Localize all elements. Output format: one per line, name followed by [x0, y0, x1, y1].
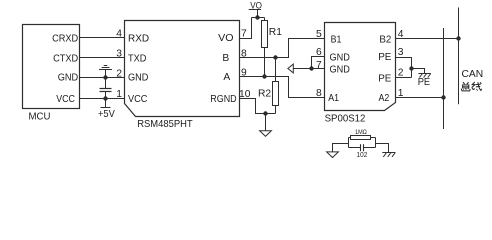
svg-text:8: 8	[316, 88, 322, 99]
svg-text:GND: GND	[128, 73, 148, 84]
net arrow left	[288, 64, 293, 73]
wire pin1 A2 to bus	[396, 97, 444, 99]
wire CRXD to RXD	[80, 37, 125, 39]
chassis ground PE	[418, 74, 430, 78]
wire pin10 RGND	[240, 99, 276, 114]
svg-text:A1: A1	[328, 93, 339, 104]
resistor R2	[273, 58, 279, 114]
terminator left node	[348, 138, 350, 148]
svg-text:B1: B1	[331, 35, 342, 46]
svg-text:5: 5	[316, 29, 322, 40]
chassis ground bottom	[382, 153, 395, 157]
junction dot VCC wire	[103, 96, 107, 100]
wire to chassis ground right	[376, 144, 389, 153]
svg-text:RXD: RXD	[128, 34, 149, 45]
svg-text:VO: VO	[218, 33, 233, 44]
CAN bus line CANH	[458, 8, 460, 105]
svg-text:A2: A2	[379, 93, 390, 104]
MCU box U3	[23, 25, 80, 109]
CAN bus line CANL	[443, 28, 445, 129]
wire GND	[80, 77, 125, 79]
svg-text:SP00S12: SP00S12	[325, 113, 366, 124]
SP00S12 box U2	[325, 23, 396, 111]
svg-text:PE: PE	[378, 73, 391, 84]
svg-text:+5V: +5V	[98, 109, 115, 120]
svg-text:1MΩ: 1MΩ	[355, 129, 367, 136]
svg-text:GND: GND	[330, 52, 350, 63]
svg-text:RGND: RGND	[210, 94, 236, 105]
svg-text:102: 102	[357, 152, 368, 159]
svg-text:R2: R2	[258, 89, 271, 100]
svg-text:7: 7	[241, 28, 247, 39]
capacitor C2	[349, 144, 376, 151]
svg-text:2: 2	[398, 68, 404, 79]
svg-text:CRXD: CRXD	[52, 34, 78, 45]
wire to left arrow	[293, 68, 311, 70]
svg-text:7: 7	[316, 60, 322, 71]
svg-text:A: A	[223, 72, 230, 83]
junction dot PE pins	[409, 66, 413, 70]
svg-text:PE: PE	[418, 77, 431, 88]
svg-text:R1: R1	[269, 27, 282, 38]
wire pin9 A to A1	[240, 77, 325, 98]
svg-text:1: 1	[116, 89, 122, 100]
wire pin2 PE	[396, 77, 412, 79]
svg-text:3: 3	[398, 47, 404, 58]
resistor R1	[262, 18, 268, 77]
svg-text:GND: GND	[58, 73, 79, 84]
junction dot RGND	[263, 111, 267, 115]
wire pin7 VO	[240, 18, 252, 39]
node VO junction dot	[255, 15, 259, 19]
wire pin8 B to B1	[240, 39, 325, 58]
svg-text:VCC: VCC	[56, 94, 75, 105]
wire pin3 PE	[396, 58, 412, 78]
wire pin6 GND	[312, 57, 325, 69]
junction dot GND wire	[103, 75, 107, 79]
wire VCC	[80, 98, 125, 100]
resistor R3 1M	[349, 136, 376, 140]
svg-text:B: B	[222, 53, 229, 64]
wire pin7 GND	[312, 68, 325, 70]
svg-text:TXD: TXD	[128, 54, 146, 65]
svg-text:MCU: MCU	[29, 111, 51, 122]
net arrow down (isolated gnd)	[327, 152, 339, 158]
svg-text:CAN: CAN	[462, 69, 484, 80]
RSM485PHT box U1	[125, 21, 240, 117]
svg-text:4: 4	[116, 28, 122, 39]
+5V power symbol	[101, 99, 111, 108]
RGND net arrow	[260, 114, 272, 137]
svg-text:VCC: VCC	[128, 94, 148, 105]
svg-text:GND: GND	[330, 64, 350, 75]
zongxian label (CJK strokes)	[461, 82, 482, 91]
terminator right node	[375, 138, 377, 148]
svg-text:2: 2	[116, 68, 122, 79]
capacitor C1	[100, 78, 112, 99]
terminator network left arrow stem	[333, 144, 349, 152]
junction dot B2 bus	[456, 36, 460, 40]
junction dot A2 bus	[441, 95, 445, 99]
wire VO node horizontal	[252, 17, 265, 19]
wire CTXD to TXD	[80, 57, 125, 59]
junction dot B to R2	[273, 55, 277, 59]
svg-text:B2: B2	[379, 35, 391, 46]
junction dot GND pins	[309, 66, 313, 70]
svg-text:RSM485PHT: RSM485PHT	[137, 119, 193, 130]
junction dot R1 to A	[262, 74, 266, 78]
wire PE to chassis ground	[412, 69, 425, 74]
VO power symbol	[249, 0, 262, 17]
svg-text:PE: PE	[378, 52, 391, 63]
wire pin4 B2 to bus	[396, 38, 459, 40]
ground symbol on GND wire	[99, 66, 112, 78]
svg-text:3: 3	[116, 48, 122, 59]
svg-text:CTXD: CTXD	[53, 54, 78, 65]
